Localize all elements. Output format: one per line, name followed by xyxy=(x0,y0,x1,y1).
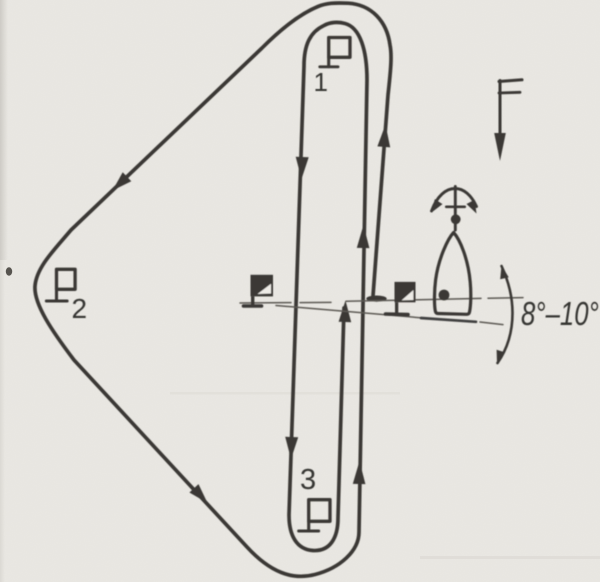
start line upper extension xyxy=(240,298,523,303)
arrow down-right on leg mark2 to mark3 xyxy=(189,484,207,503)
svg-text:1: 1 xyxy=(314,67,328,97)
mast crossbar xyxy=(446,205,464,208)
boat rocking arc xyxy=(432,189,477,212)
wind arrow head xyxy=(494,133,506,161)
hull dot xyxy=(439,290,450,301)
arrow down on line A lower xyxy=(285,437,298,459)
boat hull xyxy=(434,233,470,315)
arrow down-left on leg mark1 to mark2 xyxy=(113,172,132,190)
masthead dot xyxy=(451,214,461,224)
heel angle arc xyxy=(498,266,513,363)
rocking arc right arrowhead xyxy=(467,200,477,214)
arrow up on start leg xyxy=(377,125,390,148)
mast line xyxy=(454,187,457,231)
thick transom underline segment xyxy=(421,318,476,322)
arrow down on line A upper xyxy=(296,157,309,179)
mark 3 flag xyxy=(299,500,330,531)
heel arc top arrowhead xyxy=(500,266,509,280)
arrow up on line C upper xyxy=(357,225,370,248)
mark 1 flag xyxy=(320,38,350,67)
start flag right (filled) xyxy=(386,282,416,315)
start line lower extension 8-10 degrees xyxy=(276,306,503,325)
arrow up on line B at finish xyxy=(339,301,352,323)
svg-text:8°–10°: 8°–10° xyxy=(521,296,599,333)
rocking arc left arrowhead xyxy=(432,199,443,212)
wire course loop: start leg, mark1 turn, leg to mark2, leg to mark3, sausage up C, top turn, down A, bottom turn, up B xyxy=(35,3,391,576)
start flag left (filled) xyxy=(244,275,274,306)
wind symbol F stem xyxy=(499,81,502,139)
heel arc bottom arrowhead xyxy=(497,350,505,364)
svg-text:2: 2 xyxy=(72,293,88,324)
start pole base ellipse xyxy=(366,296,386,302)
wind symbol F middle bar xyxy=(499,91,520,94)
arrow up on line C lower xyxy=(353,461,366,484)
wind symbol F top bar xyxy=(499,80,522,82)
mark 2 flag xyxy=(46,269,75,301)
svg-text:3: 3 xyxy=(300,464,316,496)
